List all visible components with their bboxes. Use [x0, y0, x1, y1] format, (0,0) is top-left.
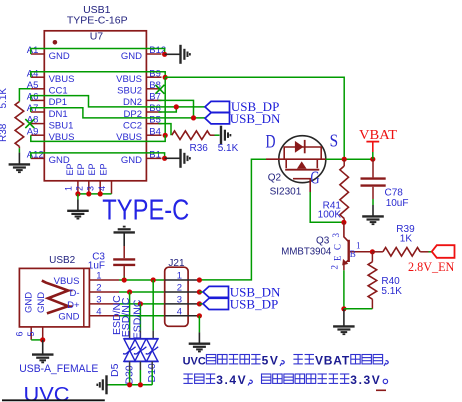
- svg-text:3.3V: 3.3V: [350, 373, 381, 387]
- svg-text:D-: D-: [69, 288, 79, 299]
- svg-text:USB-A_FEMALE: USB-A_FEMALE: [19, 363, 98, 375]
- svg-text:UVC: UVC: [183, 356, 206, 368]
- resistor R38 5.1K vertical: [15, 102, 24, 149]
- wire joining EP pins: [78, 193, 112, 195]
- svg-text:DP1: DP1: [49, 97, 67, 108]
- svg-text:SBU1: SBU1: [49, 120, 74, 131]
- pin A12 (GND) of USB1: [27, 150, 70, 167]
- port USB_DN (top): [205, 111, 281, 126]
- pin B5 (CC2) of USB1: [123, 115, 162, 132]
- wire D+ row: [119, 303, 165, 305]
- svg-text:A7: A7: [27, 103, 39, 114]
- pin 6 of USB2: [15, 327, 32, 340]
- wire Q2 drain to lower VBUS rail: [199, 159, 266, 280]
- wire CC2 B5 jog down to R36: [159, 124, 172, 136]
- wire VBUS A4 to B9: [31, 72, 165, 78]
- ground at B1: [165, 149, 190, 168]
- svg-text:D: D: [266, 132, 276, 153]
- wire R39 to flag: [429, 251, 432, 253]
- port USB_DN (bottom): [203, 285, 281, 300]
- svg-text:R36: R36: [190, 143, 209, 154]
- note text: UVC DianYa YouXianYong 5V, DangYong VBAT GongDianShi,: [183, 354, 389, 368]
- wire C78 to ground: [372, 199, 374, 205]
- svg-text:ESD/NC: ESD/NC: [120, 297, 132, 337]
- svg-text:3: 3: [86, 186, 96, 191]
- port USB_DP (top): [205, 99, 279, 114]
- note text: XuDaYu 3.4V, Bing SheXiangTou XuanZe ZhiChi 3.3V.: [183, 373, 387, 387]
- wire R38 to ground: [18, 148, 20, 152]
- svg-text:SI2301: SI2301: [270, 186, 302, 197]
- svg-text:1K: 1K: [400, 234, 413, 245]
- junction USB_DP channel: [174, 104, 179, 109]
- wire J21 pin2 stub: [199, 291, 203, 293]
- small red dash bottom right: [376, 389, 386, 391]
- no-connect X at B8: [155, 85, 164, 94]
- svg-text:1: 1: [177, 271, 182, 282]
- pin EP3 of USB1: [86, 163, 101, 193]
- ground below R38: [9, 153, 31, 173]
- no-connect X at A8: [25, 119, 34, 128]
- svg-text:EP: EP: [65, 163, 75, 175]
- junction ESD gnd 2: [138, 382, 143, 387]
- svg-text:5.1K: 5.1K: [218, 143, 239, 154]
- svg-text:UVC: UVC: [24, 384, 70, 402]
- svg-text:1: 1: [356, 241, 361, 251]
- svg-text:2.8V_EN: 2.8V_EN: [408, 259, 455, 274]
- junction source/R41: [342, 157, 347, 162]
- svg-text:4: 4: [177, 306, 182, 317]
- svg-text:EP: EP: [87, 163, 97, 175]
- svg-text:GND: GND: [24, 292, 35, 313]
- svg-text:R38: R38: [0, 123, 9, 142]
- junction B1: [162, 156, 167, 161]
- wire ESD column x=129.6: [129, 292, 131, 331]
- underline below UVC: [2, 399, 105, 401]
- pin 5 of USB2: [26, 327, 43, 340]
- ground left of ESD diodes: [97, 375, 108, 394]
- junction EP3: [98, 191, 103, 196]
- junction emitter/R40: [341, 306, 346, 311]
- svg-text:Q2: Q2: [268, 173, 282, 184]
- junction USB_DN channel: [191, 115, 196, 120]
- pin A4 (VBUS) of USB1: [27, 68, 75, 85]
- ESD diode array D5 D30 D10 (bidirectional TVS): [123, 339, 159, 362]
- ground right of R36: [220, 126, 222, 145]
- resistor R36 5.1K horizontal: [172, 131, 210, 140]
- svg-text:4: 4: [96, 306, 101, 317]
- svg-text:GND: GND: [121, 155, 142, 166]
- junction J21 pin2: [197, 289, 202, 294]
- svg-text:2: 2: [330, 265, 340, 270]
- svg-text:SBU2: SBU2: [117, 86, 142, 97]
- pin A6 (DP1) of USB1: [27, 92, 67, 109]
- svg-text:100K: 100K: [318, 210, 342, 221]
- svg-text:EP: EP: [99, 163, 109, 175]
- ground at B12: [165, 45, 190, 64]
- transistor Q3 MMBT3904 NPN: [342, 222, 372, 270]
- svg-text:TYPE-C: TYPE-C: [102, 195, 189, 227]
- pin A5 (CC1) of USB1: [27, 80, 68, 97]
- wire ESD common to ground: [108, 384, 152, 386]
- svg-text:2: 2: [74, 186, 84, 191]
- junction B9: [163, 75, 168, 80]
- junction B12: [162, 52, 167, 57]
- pin 2 of J21: [165, 283, 200, 294]
- resistor R41 100K vertical: [340, 159, 349, 222]
- svg-text:5V: 5V: [262, 354, 280, 368]
- capacitor C78 10uF: [361, 159, 386, 199]
- wire DN1 A7 to USB_DN channel: [31, 108, 205, 118]
- svg-text:D+: D+: [67, 300, 80, 311]
- wire ESD column x=140.4: [139, 304, 141, 331]
- wire EP to ground: [77, 194, 79, 200]
- R36 lead: [210, 134, 215, 136]
- ground below Q3 emitter: [333, 309, 355, 334]
- wire R36 to ground: [215, 134, 220, 136]
- svg-text:A12: A12: [27, 150, 44, 161]
- junction J21 pin3: [197, 301, 202, 306]
- svg-text:3: 3: [177, 294, 182, 305]
- svg-text:3.4V: 3.4V: [216, 373, 247, 387]
- junction J21 pin4: [197, 313, 202, 318]
- wire GND row: [119, 315, 165, 317]
- svg-text:5.1K: 5.1K: [0, 88, 9, 109]
- svg-text:J21: J21: [168, 258, 185, 269]
- svg-text:S: S: [330, 131, 339, 151]
- svg-text:Q3: Q3: [316, 235, 330, 246]
- connector USB1 TYPE-C-16P symbol body U7: [44, 31, 146, 181]
- svg-text:D5: D5: [109, 363, 121, 377]
- pin B12 (GND) of USB1: [121, 45, 166, 62]
- ground below C78: [362, 205, 384, 224]
- resistor R40 5.1K vertical: [368, 252, 377, 309]
- capacitor C3 1uF: [113, 246, 135, 277]
- svg-text:3: 3: [96, 294, 101, 305]
- svg-text:GND: GND: [36, 292, 47, 313]
- wire VBUS B9 down to B4: [164, 77, 166, 135]
- svg-text:3: 3: [331, 233, 341, 238]
- svg-text:C78: C78: [385, 187, 404, 198]
- pin A1 (GND) of USB1: [27, 45, 70, 62]
- pin 1 (VBUS) of USB2: [54, 271, 119, 287]
- pin EP2 of USB1: [74, 163, 89, 193]
- svg-text:VBAT: VBAT: [315, 354, 350, 368]
- pin 4 (GND) of USB2: [58, 306, 119, 322]
- junction B4: [163, 133, 168, 138]
- svg-text:10uF: 10uF: [386, 198, 409, 209]
- svg-text:1: 1: [63, 186, 73, 191]
- wire J21 pin3 stub: [199, 303, 203, 305]
- wire Q3 emitter down: [343, 270, 345, 309]
- pin A9 (VBUS) of USB1: [27, 126, 75, 143]
- svg-text:ESD/NC: ESD/NC: [131, 299, 143, 339]
- junction Q3 base/R39/R40: [370, 249, 375, 254]
- svg-text:VBAT: VBAT: [359, 128, 397, 143]
- pin B7 (DN2) of USB1: [123, 92, 162, 109]
- svg-text:GND: GND: [121, 51, 142, 62]
- junction EP1: [75, 191, 80, 196]
- svg-text:B1: B1: [149, 150, 161, 161]
- wire J21 pin4 to ground: [198, 316, 200, 333]
- pin EP1 of USB1: [63, 163, 78, 193]
- wire C3 to VBUS row: [123, 277, 125, 280]
- svg-text:CC2: CC2: [123, 120, 142, 131]
- svg-text:USB2: USB2: [49, 255, 76, 266]
- junction VBAT/C78: [370, 157, 375, 162]
- junction USB2 shield: [40, 337, 45, 342]
- junction ESD gnd 1: [127, 382, 132, 387]
- wire VBUS row (USB2 pin1 / C3 / J21 pin1): [119, 279, 165, 281]
- connector USB2 USB-A female symbol: [19, 268, 89, 327]
- pin B4 (VBUS) of USB1: [116, 126, 161, 143]
- svg-text:USB_DP: USB_DP: [230, 296, 278, 311]
- svg-text:2: 2: [96, 283, 101, 294]
- svg-text:U7: U7: [90, 31, 104, 43]
- svg-text:B: B: [350, 249, 356, 259]
- svg-text:EP: EP: [76, 163, 86, 175]
- svg-text:GND: GND: [49, 51, 70, 62]
- svg-text:B9: B9: [149, 68, 161, 79]
- svg-text:6: 6: [15, 331, 25, 336]
- svg-text:A6: A6: [27, 92, 39, 103]
- pin 3 (D+) of USB2: [67, 294, 119, 310]
- wire below ESD diode x=153.2: [151, 361, 153, 370]
- wire R40 bottom to emitter: [344, 308, 373, 310]
- USB2 shield zigzag graphic: [42, 281, 73, 314]
- wire VBUS A9 under R36 to B4: [31, 135, 165, 141]
- wire GND A12 to B1: [31, 153, 165, 159]
- junction D+/ESD column: [138, 301, 143, 306]
- wire VBUS B9 to Q2 source node: [165, 77, 344, 159]
- wire below ESD diode x=129.6: [129, 361, 131, 370]
- wire CC1 A5 to R38: [19, 89, 30, 102]
- connector J21 header: [165, 267, 188, 326]
- svg-text:C: C: [333, 244, 343, 250]
- pin B9 (VBUS) of USB1: [116, 68, 161, 85]
- svg-text:VBUS: VBUS: [54, 276, 80, 287]
- wire DP2 B6 jog to USB_DP channel: [159, 107, 177, 112]
- svg-text:USB_DN: USB_DN: [230, 111, 281, 126]
- pin B1 (GND) of USB1: [121, 150, 162, 167]
- svg-text:2: 2: [177, 283, 182, 294]
- wire Q2 gate down to R41 bottom: [310, 192, 344, 222]
- port USB_DP (bottom): [203, 296, 278, 311]
- ground below USB2: [32, 340, 54, 363]
- svg-text:VBUS: VBUS: [116, 74, 142, 85]
- junction VBUS/ESD column: [151, 277, 156, 282]
- pin EP4 of USB1: [97, 163, 112, 193]
- wire below ESD diode x=140.4: [139, 361, 141, 370]
- pin A8 (SBU1) of USB1: [27, 115, 74, 132]
- junction J21 pin1: [197, 277, 202, 282]
- svg-text:A4: A4: [27, 68, 39, 79]
- svg-text:E: E: [333, 255, 343, 261]
- svg-text:A9: A9: [27, 126, 39, 137]
- svg-text:1: 1: [96, 271, 101, 282]
- wire Q2 source node: [326, 158, 373, 160]
- junction C3: [122, 277, 127, 282]
- resistor R39 1K horizontal: [372, 248, 428, 257]
- pin B8 (SBU2) of USB1: [117, 80, 161, 97]
- junction D-/ESD column: [127, 289, 132, 294]
- svg-text:TYPE-C-16P: TYPE-C-16P: [67, 14, 128, 26]
- wire ESD column x=153.2: [152, 280, 154, 331]
- pin 3 of J21: [165, 294, 200, 305]
- junction R41/Q3 collector: [341, 220, 346, 225]
- svg-text:5.1K: 5.1K: [381, 286, 402, 297]
- off-sheet flag 2.8V_EN: [432, 245, 455, 258]
- wire DP1 A6 to USB_DP channel: [31, 96, 205, 107]
- wire GND A1 to B12: [31, 49, 165, 55]
- svg-text:A1: A1: [27, 45, 39, 56]
- svg-text:DN1: DN1: [49, 109, 68, 120]
- ground below EP: [67, 200, 89, 219]
- pin 1 of J21: [165, 271, 200, 282]
- svg-text:5: 5: [26, 331, 36, 336]
- power port VBAT: [359, 128, 397, 159]
- wire D- row: [119, 291, 165, 293]
- svg-text:VBUS: VBUS: [49, 74, 75, 85]
- pin 4 of J21: [165, 306, 200, 317]
- junction EP2: [86, 191, 91, 196]
- wire DN2 B7 jog to USB_DN channel: [159, 100, 194, 118]
- svg-text:MMBT3904: MMBT3904: [281, 247, 331, 258]
- pin 2 (D-) of USB2: [69, 283, 119, 299]
- pin A7 (DN1) of USB1: [27, 103, 68, 120]
- ground below J21 pin4: [189, 332, 211, 351]
- wire USB2 shield pins: [31, 339, 43, 341]
- svg-text:B4: B4: [149, 126, 161, 137]
- svg-text:GND: GND: [58, 312, 79, 323]
- svg-text:G: G: [311, 168, 320, 188]
- svg-text:4: 4: [97, 186, 107, 191]
- pin B6 (DP2) of USB1: [124, 103, 162, 120]
- ground above C3 (inverted): [114, 227, 135, 246]
- transistor Q2 SI2301 P-MOSFET: [266, 136, 326, 192]
